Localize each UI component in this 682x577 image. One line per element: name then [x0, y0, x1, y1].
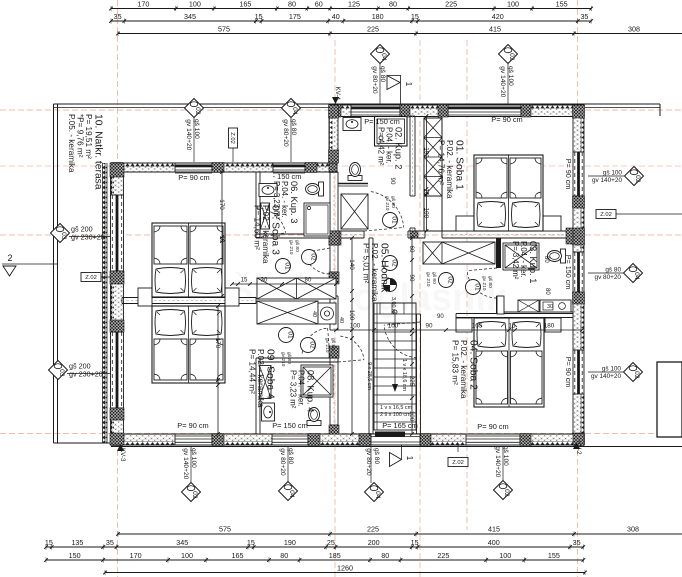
wall: north wall of NE block post: [400, 105, 410, 118]
marker line bottom Soba 2: [502, 446, 504, 481]
door: Kup.1: [467, 268, 497, 298]
svg-text:1: 1: [404, 82, 413, 87]
svg-text:575: 575: [218, 25, 230, 34]
svg-text:190: 190: [423, 147, 430, 158]
wall: west outer cladding insulation band: [103, 163, 108, 443]
svg-text:01: 01: [390, 216, 397, 224]
wall: south outer wall post: [111, 434, 123, 446]
nightstand: Soba 1 west: [456, 216, 474, 231]
marker line east Soba 2: [588, 371, 623, 373]
svg-text:P= 90 cm: P= 90 cm: [564, 357, 573, 388]
room label: 08. Kup. 4: [289, 370, 316, 412]
svg-text:345: 345: [176, 538, 188, 547]
axis grid line vertical D x=467: [466, 40, 468, 530]
svg-text:200: 200: [368, 538, 380, 547]
svg-text:P= 90 cm: P= 90 cm: [564, 159, 573, 190]
svg-text:gv 210: gv 210: [324, 338, 330, 353]
level line Z.02 top pole: [232, 148, 234, 162]
svg-text:190: 190: [284, 538, 296, 547]
svg-text:40: 40: [311, 311, 317, 317]
svg-text:100: 100: [189, 0, 201, 9]
svg-text:02: 02: [308, 341, 315, 349]
svg-text:420: 420: [492, 12, 504, 21]
interior dim Soba 4 170: [214, 304, 221, 436]
room label: 07. Soba 3: [252, 205, 280, 264]
wall: stair east wall: [417, 314, 421, 434]
svg-text:gv 210: gv 210: [481, 276, 487, 291]
svg-text:- 150 cm: - 150 cm: [273, 172, 302, 181]
door: Kup.4: [338, 336, 364, 362]
svg-text:2: 2: [7, 253, 12, 263]
svg-text:80: 80: [544, 288, 550, 295]
svg-text:308: 308: [628, 25, 640, 34]
svg-text:P= 3,42 m²: P= 3,42 m²: [511, 241, 520, 280]
level label Z.02 south: [448, 458, 468, 467]
svg-text:01. Soba 1: 01. Soba 1: [454, 140, 465, 190]
wall: east outer wall post: [573, 433, 585, 445]
wall: north wall of west block post: [329, 163, 337, 173]
svg-text:170: 170: [218, 199, 225, 210]
svg-text:02: 02: [446, 276, 453, 284]
svg-text:225: 225: [408, 376, 415, 387]
wall: partition hall and Kup.1: [496, 238, 501, 314]
top dimension row 1: [109, 0, 593, 11]
closet: Soba 4 wardrobe: [257, 301, 318, 324]
svg-text:165: 165: [472, 323, 483, 330]
marker line bottom Soba 4: [190, 446, 192, 483]
toilet: Kup.4: [307, 408, 321, 426]
svg-text:gv 140+20: gv 140+20: [591, 373, 621, 380]
axis grid line horizontal y=433: [0, 433, 682, 435]
svg-text:415: 415: [489, 25, 501, 34]
svg-text:P= 150 cm: P= 150 cm: [272, 421, 308, 430]
door: Soba 4: [302, 328, 330, 356]
window marker 02 top Soba 3: [185, 99, 204, 151]
svg-text:3,00 m: 3,00 m: [390, 297, 396, 314]
svg-text:gš 100: gš 100: [602, 366, 622, 373]
axis grid line vertical A x=117: [117, 0, 119, 577]
interior dim hall vertical 2: [408, 236, 415, 332]
axis grid line horizontal y=164: [0, 165, 682, 167]
bottom dimension row total 1260: [103, 564, 587, 576]
svg-text:P.05. - keramika: P.05. - keramika: [67, 114, 76, 173]
svg-text:P= 5,01 m²: P= 5,01 m²: [361, 243, 370, 284]
wall: west outer wall post: [110, 163, 124, 177]
window marker 04 top Kup.2: [371, 45, 390, 94]
svg-text:15: 15: [247, 538, 255, 547]
svg-text:185: 185: [329, 551, 341, 560]
svg-text:gv 80+20: gv 80+20: [371, 66, 378, 94]
door text Soba 4: [280, 352, 292, 367]
wall: Kup.4 north partition: [260, 358, 338, 362]
bottom dimension row 2: [44, 538, 585, 549]
door text hall north: [384, 196, 396, 211]
closet: hall wardrobe: [423, 242, 495, 264]
nightstand: Soba 3 west: [138, 288, 152, 306]
wall: south outer wall window: [466, 434, 520, 445]
toilet: Kup.1: [548, 249, 566, 263]
interior dim Kup.2 190: [423, 114, 430, 233]
svg-text:1260: 1260: [337, 564, 353, 573]
svg-text:04: 04: [380, 53, 387, 61]
bottom dimension row 3: [44, 551, 585, 562]
stairs: walk line with arrow: [392, 310, 398, 392]
svg-text:30: 30: [261, 278, 268, 284]
svg-text:15: 15: [45, 538, 53, 547]
wall: partition Kup.2 and Soba 1: [410, 116, 415, 231]
interior dim stairs vertical: [408, 332, 415, 436]
door tag 01 Kup.1: [466, 280, 481, 295]
svg-text:100: 100: [499, 551, 511, 560]
wall: north wall of NE block: [329, 105, 584, 117]
svg-text:P= 14,60 m²: P= 14,60 m²: [252, 205, 261, 250]
svg-text:Z.02: Z.02: [600, 212, 612, 218]
cabinet: Kup.4 narrow: [260, 366, 272, 399]
svg-text:P= 150 cm: P= 150 cm: [564, 255, 573, 290]
svg-text:25: 25: [327, 538, 335, 547]
svg-text:P= 150 cm: P= 150 cm: [364, 117, 400, 126]
shower: Kup.1: [503, 243, 539, 270]
svg-text:80: 80: [543, 256, 549, 263]
door tag 02 Kup.4: [301, 338, 316, 353]
svg-text:05. Hodnik: 05. Hodnik: [379, 243, 390, 293]
svg-text:100: 100: [388, 323, 399, 330]
svg-text:10: 10: [218, 235, 225, 243]
svg-text:Z.02: Z.02: [85, 275, 97, 281]
wall: east outer wall post: [573, 228, 585, 245]
svg-text:225: 225: [367, 525, 379, 534]
svg-text:35: 35: [573, 538, 581, 547]
svg-text:gv 80+20: gv 80+20: [282, 119, 289, 147]
wall: east outer wall post: [573, 105, 585, 118]
svg-text:02: 02: [634, 175, 641, 183]
svg-text:01: 01: [286, 331, 293, 339]
svg-text:gš 100: gš 100: [603, 170, 623, 177]
marker line bottom Kup.4: [287, 446, 289, 482]
svg-text:165: 165: [232, 551, 244, 560]
svg-text:02: 02: [503, 489, 510, 497]
svg-text:175: 175: [289, 12, 301, 21]
shower: Kup.4: [301, 365, 333, 397]
svg-text:P= 90 cm: P= 90 cm: [477, 422, 508, 431]
wall: west outer wall post: [110, 408, 124, 420]
counter Kup.1 south fixtures: [540, 300, 571, 312]
wall: north wall of west block post: [305, 163, 317, 173]
svg-text:80: 80: [288, 0, 296, 9]
svg-text:90: 90: [437, 314, 444, 320]
wall: central spine: [330, 172, 338, 425]
wall: south outer wall post: [520, 434, 531, 446]
svg-text:P= 14,76 m²: P= 14,76 m²: [436, 140, 445, 185]
wall: west outer wall post: [110, 320, 124, 332]
room label: 01. Soba 1: [436, 140, 464, 199]
svg-text:Z.02: Z.02: [452, 460, 464, 466]
door: Kup.3: [304, 248, 334, 274]
window marker 02 bottom Soba 4: [182, 448, 201, 502]
wall: north wall of west block post: [212, 163, 224, 173]
post: spine junction 3: [329, 346, 339, 358]
svg-text:15: 15: [411, 538, 419, 547]
svg-text:180: 180: [372, 12, 384, 21]
svg-text:60: 60: [315, 0, 323, 9]
svg-text:1 v x 16,5 cm: 1 v x 16,5 cm: [380, 405, 413, 411]
svg-text:15: 15: [255, 12, 263, 21]
svg-text:gv 210: gv 210: [425, 272, 431, 287]
wall: west wall of NE block post: [329, 105, 339, 118]
axis marker 2 west: [2, 253, 57, 276]
watermark: [171, 267, 508, 319]
wall: south outer wall post: [573, 434, 584, 446]
svg-text:150: 150: [69, 551, 81, 560]
cabinet: Kup.3 narrow: [261, 203, 270, 229]
interior dim row west y=284: [230, 278, 338, 286]
marker line 02 top Soba 3: [193, 118, 195, 163]
svg-text:140: 140: [348, 259, 355, 270]
svg-text:gv 140+20: gv 140+20: [494, 446, 501, 477]
svg-text:Z.02: Z.02: [229, 132, 235, 144]
axis grid line horizontal y=110: [0, 109, 682, 111]
room label: 04. Soba 2: [450, 340, 478, 399]
stairs: top winder steps: [374, 303, 416, 314]
svg-text:415: 415: [488, 525, 500, 534]
wall: east outer wall window: [573, 152, 584, 196]
wall: north wall of west block: [111, 163, 337, 172]
wall: south outer wall post: [308, 434, 320, 446]
svg-text:gv 140+20: gv 140+20: [499, 66, 506, 97]
svg-text:03. Kup. 1: 03. Kup. 1: [528, 241, 538, 283]
svg-text:30: 30: [547, 304, 553, 310]
wall: south outer wall post: [359, 434, 371, 446]
svg-text:90: 90: [408, 274, 415, 282]
nightstand: Soba 1 east: [543, 216, 561, 231]
level label Z.02 top: [229, 128, 238, 148]
wall: north wall of NE block post: [438, 105, 448, 118]
svg-text:10. Natkr. terasa: 10. Natkr. terasa: [93, 114, 104, 190]
svg-text:gv 230+20: gv 230+20: [69, 370, 103, 379]
room label: 05. Hodnik: [361, 243, 389, 302]
svg-text:165: 165: [239, 0, 251, 9]
post: spine at middle wall: [329, 231, 341, 245]
window marker 04 bottom entrance: [365, 448, 384, 502]
level label Z.02 west: [81, 273, 101, 282]
shaft: ventilation duct: [424, 118, 442, 196]
wall: west outer wall window: [111, 195, 124, 271]
label KV-3: [117, 444, 126, 462]
terrace outer edge west double line: [53, 104, 55, 443]
svg-text:35: 35: [114, 12, 122, 21]
label KV-4: [332, 87, 341, 104]
closet: Soba 3 wardrobe: [257, 278, 336, 299]
svg-text:04: 04: [633, 272, 640, 280]
svg-text:170: 170: [214, 338, 221, 349]
wall: north wall of west block post: [111, 163, 123, 173]
svg-text:01: 01: [473, 283, 480, 291]
wall: west outer wall post: [110, 433, 124, 445]
svg-text:04. Soba 2: 04. Soba 2: [468, 340, 479, 390]
label KV-2: [573, 441, 582, 455]
svg-text:gš 80: gš 80: [286, 352, 292, 364]
wall: partition Soba 3 and Kup.3: [256, 172, 260, 238]
level line Z.02 south: [457, 445, 459, 452]
svg-text:gv 210: gv 210: [288, 240, 294, 255]
svg-text:100: 100: [423, 208, 430, 219]
svg-text:gv 210: gv 210: [384, 196, 390, 211]
svg-text:03: 03: [58, 369, 65, 377]
bed: Soba 2 double bed: [474, 318, 544, 407]
door tag 01 Soba 3: [276, 259, 291, 274]
svg-text:P= 90 cm: P= 90 cm: [178, 173, 209, 182]
window marker 04 bottom Kup.4: [279, 448, 298, 501]
wall: east outer wall window: [573, 350, 584, 394]
door tag 02 Kup.3: [302, 250, 317, 265]
svg-text:170: 170: [137, 0, 149, 9]
wall: Kup.1 south wall: [497, 296, 573, 314]
svg-text:1 v x 18,6 cm: 1 v x 18,6 cm: [401, 359, 407, 392]
axis marker 1 bottom: [390, 445, 415, 467]
sink: Kup.4: [262, 403, 275, 421]
svg-text:400: 400: [488, 538, 500, 547]
wall: middle wall south of Soba 1: [336, 231, 573, 238]
counter: Kup.2: [338, 184, 368, 187]
window marker 03 west 1: [51, 224, 111, 243]
svg-text:04: 04: [374, 491, 381, 499]
svg-text:15: 15: [423, 188, 430, 196]
svg-text:80: 80: [381, 551, 389, 560]
wall: Soba 2 north headboard line: [456, 314, 573, 318]
bottom outer ground line: [54, 442, 112, 444]
window marker 02 top Soba 1: [499, 45, 518, 98]
svg-text:P= 4,42 m²: P= 4,42 m²: [377, 127, 386, 166]
shaft lower part: [424, 196, 442, 231]
window marker 02 east Soba 2: [591, 363, 643, 382]
wall: partition Soba 4 and Kup.4: [256, 358, 260, 434]
shower: Kup.3: [304, 203, 330, 236]
marker line 02 top Soba 1: [507, 63, 509, 104]
svg-text:06. Kup. 3: 06. Kup. 3: [289, 181, 299, 223]
svg-text:575: 575: [219, 525, 231, 534]
level marker: hall: [384, 279, 397, 292]
wall: east outer wall post: [573, 292, 585, 304]
window marker 04 east Kup.1: [595, 264, 643, 283]
wall: west outer wall post: [110, 271, 124, 284]
door tag 01 hall north: [383, 213, 398, 228]
post: spine junction 1: [329, 231, 339, 245]
top dimension row 3: [116, 25, 682, 37]
terrace and building top edge line: [54, 103, 661, 105]
svg-text:35: 35: [106, 538, 114, 547]
svg-text:02: 02: [309, 253, 316, 261]
svg-text:2 š x 100 cm: 2 š x 100 cm: [380, 412, 411, 418]
svg-text:02: 02: [508, 53, 515, 61]
svg-text:155: 155: [548, 551, 560, 560]
svg-text:40: 40: [332, 12, 340, 21]
svg-text:80: 80: [280, 551, 288, 560]
svg-text:gv 140+20: gv 140+20: [592, 177, 622, 184]
appliance: washer 40x40: [318, 303, 336, 324]
door tag 01 Soba 4: [279, 328, 294, 343]
post: middle wall at shaft: [410, 231, 418, 238]
wall: north wall of NE block window: [351, 105, 400, 117]
svg-text:155: 155: [556, 0, 568, 9]
svg-text:225: 225: [445, 0, 457, 9]
window marker 04 top Kup.3: [282, 99, 301, 147]
wall: north wall of NE block window: [448, 105, 521, 117]
axis grid line vertical E x=577: [577, 0, 579, 577]
marker line 04 top Kup.3: [290, 118, 292, 163]
svg-text:100: 100: [507, 0, 519, 9]
door text Kup.4: [324, 338, 336, 353]
wall: south outer wall: [111, 434, 584, 445]
wall: south outer wall post: [212, 434, 224, 446]
toilet: Kup.2: [348, 163, 362, 181]
wall: south outer wall window: [272, 434, 308, 445]
shower: Kup.2: [375, 117, 408, 147]
wall: north wall of NE block post: [329, 105, 341, 118]
svg-text:gv 230+20: gv 230+20: [71, 233, 105, 242]
svg-text:100: 100: [181, 551, 193, 560]
svg-text:15: 15: [411, 12, 419, 21]
door text Soba 3: [288, 240, 300, 255]
svg-text:gš 80: gš 80: [294, 240, 300, 252]
svg-text:9 x 28,5 cm: 9 x 28,5 cm: [366, 362, 372, 390]
axis grid line vertical B x=335: [334, 40, 336, 577]
stairs: flight outline: [374, 303, 416, 430]
svg-text:180: 180: [544, 323, 555, 330]
window marker 03 west 2: [49, 361, 111, 380]
svg-text:35: 35: [580, 12, 588, 21]
marker line bottom entrance: [370, 446, 372, 483]
svg-text:09. Soba 4: 09. Soba 4: [265, 349, 276, 399]
wall: west outer wall window: [111, 332, 124, 408]
bed: Soba 3 double bed: [152, 223, 225, 297]
sink: Kup.2: [343, 118, 361, 131]
svg-text:225: 225: [437, 551, 449, 560]
marker line east Kup.1: [588, 272, 623, 274]
wall: east outer wall post: [573, 196, 585, 208]
wall: north wall of west block window: [273, 163, 305, 173]
toilet: Kup.3: [306, 182, 324, 196]
door tag 02 Soba 1: [439, 273, 454, 288]
wall: north wall of NE block post: [521, 105, 531, 118]
svg-text:100: 100: [350, 323, 361, 330]
svg-text:P= 165 cm: P= 165 cm: [382, 421, 418, 430]
wall: north wall of NE block post: [573, 105, 584, 118]
svg-text:02: 02: [191, 491, 198, 499]
svg-text:135: 135: [71, 538, 83, 547]
top edge right extension: [584, 107, 660, 109]
svg-text:15: 15: [241, 278, 248, 284]
svg-text:gš 80: gš 80: [431, 272, 437, 284]
neighbor building outline east: [657, 362, 682, 437]
entrance door opening in south wall: [371, 432, 420, 446]
washer box: Kup.2: [341, 194, 368, 229]
top dimension row 2: [109, 12, 593, 23]
nightstand: Soba 2 west: [456, 318, 472, 332]
wall: stair west stringer: [369, 238, 373, 434]
bed: Soba 4 double bed: [152, 306, 225, 383]
svg-text:02: 02: [633, 371, 640, 379]
wall: west wall of NE block: [329, 105, 338, 163]
svg-text:308: 308: [627, 525, 639, 534]
room label: 03. Kup. 1: [511, 241, 538, 283]
wall: partition Soba 3 and Soba 4: [122, 298, 256, 304]
wall: east outer wall window: [573, 252, 584, 292]
room label: 02. Kup. 2: [377, 127, 404, 169]
svg-text:225: 225: [367, 25, 379, 34]
door tag 02 hall: [383, 256, 398, 271]
wall: north wall of west block window: [175, 163, 212, 173]
svg-text:100: 100: [348, 310, 355, 321]
